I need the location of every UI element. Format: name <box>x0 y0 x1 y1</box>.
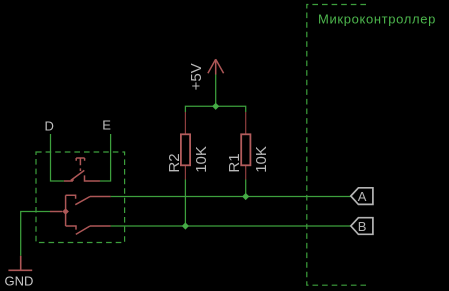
svg-text:B: B <box>358 219 367 234</box>
encoder contacts (double switch) <box>66 195 111 234</box>
encoder common pin stub <box>50 211 62 213</box>
net tag B <box>351 218 373 235</box>
svg-text:E: E <box>102 118 111 133</box>
wire GND branch <box>21 212 50 256</box>
svg-text:A: A <box>358 189 367 204</box>
svg-text:10K: 10K <box>193 146 210 173</box>
svg-text:10K: 10K <box>253 146 270 173</box>
svg-text:D: D <box>45 119 54 134</box>
power +5V symbol <box>208 59 224 74</box>
resistor R2 <box>166 112 210 180</box>
wire A (net A) <box>111 196 351 198</box>
wire E <box>100 134 111 181</box>
svg-text:R1: R1 <box>226 153 243 172</box>
encoder box SW1 (dashed outline) <box>36 152 125 243</box>
svg-text:R2: R2 <box>166 153 183 172</box>
svg-text:GND: GND <box>5 274 34 289</box>
junction R1 / wire A <box>242 193 249 200</box>
svg-text:Микроконтроллер: Микроконтроллер <box>318 12 436 27</box>
pushbutton switch (T actuator) <box>64 158 100 181</box>
junction at +5V rail <box>212 103 219 110</box>
microcontroller box U1 (dashed outline) <box>307 5 366 286</box>
net tag A <box>351 188 373 205</box>
wire R2 bottom <box>184 180 186 227</box>
wire +5V rail <box>185 74 245 112</box>
svg-text:+5V: +5V <box>188 63 205 90</box>
resistor R1 <box>226 112 270 180</box>
wire B (net B) <box>111 225 351 227</box>
junction R2 / wire B <box>182 222 189 229</box>
wire R1 bottom <box>245 180 247 197</box>
ground symbol <box>8 256 32 270</box>
encoder common node diamond <box>62 208 69 215</box>
wire D <box>51 134 64 181</box>
